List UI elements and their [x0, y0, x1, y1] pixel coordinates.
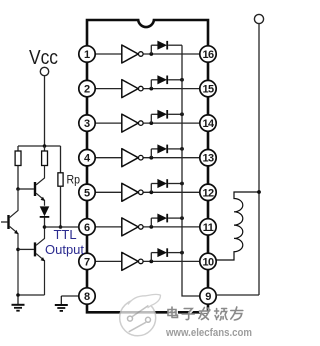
flyback diode row 3	[151, 113, 157, 115]
watermark logo	[120, 294, 161, 335]
flyback diode row 5	[151, 183, 157, 185]
svg-text:12: 12	[202, 187, 214, 199]
wire stub up row 7	[150, 253, 152, 262]
pin 10	[200, 253, 216, 269]
node Q1 base junction	[16, 187, 20, 191]
svg-text:Output: Output	[45, 242, 84, 257]
wire pin 9 to rail	[216, 294, 259, 296]
inverter buffer row 6	[122, 218, 138, 236]
node Vcc rail junction	[43, 144, 47, 148]
wire inverter output row 5	[143, 191, 200, 193]
svg-text:Rp: Rp	[67, 173, 81, 187]
diode D1	[40, 206, 50, 216]
wire inverter output row 4	[143, 157, 200, 159]
node diode-rail junction row 7	[180, 251, 184, 255]
wire inverter output row 3	[143, 122, 200, 124]
svg-text:16: 16	[202, 49, 214, 61]
wire inverter output row 2	[143, 88, 200, 90]
svg-text:3: 3	[84, 118, 90, 130]
transistor Q1	[18, 188, 34, 190]
wire input pin 4 to inverter	[95, 157, 122, 159]
pin 11	[200, 219, 216, 235]
pin 16	[200, 46, 216, 62]
svg-text:Vcc: Vcc	[29, 47, 58, 69]
pin 13	[200, 150, 216, 166]
pin 12	[200, 184, 216, 200]
ground left circuit	[12, 295, 25, 311]
node diode-rail junction row 3	[180, 112, 184, 116]
wire inverter output row 1	[143, 53, 200, 55]
pin 3	[79, 115, 95, 131]
inverter buffer row 7	[122, 252, 138, 270]
wire input pin 6 to inverter	[95, 226, 122, 228]
inverter buffer row 2	[122, 80, 138, 98]
node junction row 7	[149, 260, 153, 264]
pin 1	[79, 46, 95, 62]
wire input pin 1 to inverter	[95, 53, 122, 55]
svg-text:TTL: TTL	[53, 227, 76, 242]
pin 5	[79, 184, 95, 200]
inverter buffer row 1	[122, 45, 138, 63]
ground at pin 8	[55, 296, 68, 311]
svg-text:15: 15	[202, 84, 214, 96]
flyback diode row 4	[151, 148, 157, 150]
flyback diode row 2	[151, 79, 157, 81]
inverter buffer row 5	[122, 183, 138, 201]
node Rp bottom	[59, 225, 63, 229]
flyback diode row 6	[151, 217, 157, 219]
svg-text:6: 6	[84, 222, 90, 234]
wire emitter bottom rail	[18, 294, 45, 296]
IC body U1 (16-pin DIP outline with notch)	[87, 20, 208, 312]
flyback diode row 7	[151, 252, 157, 254]
wire input pin 7 to inverter	[95, 260, 122, 262]
node coil tap	[257, 190, 261, 194]
pin 2	[79, 80, 95, 96]
pin 4	[79, 150, 95, 166]
svg-text:2: 2	[84, 84, 90, 96]
svg-text:1: 1	[84, 49, 90, 61]
transistor Q3	[18, 248, 34, 250]
resistor R2 (collector)	[44, 146, 46, 151]
svg-text:8: 8	[84, 291, 90, 303]
wire input pin 3 to inverter	[95, 122, 122, 124]
node TTL output	[43, 225, 47, 229]
node junction row 6	[149, 225, 153, 229]
wire pin 8 to ground	[61, 295, 79, 297]
wire inverter output row 7	[143, 260, 200, 262]
svg-text:www.elecfans.com: www.elecfans.com	[165, 327, 252, 339]
wire Vcc rail	[18, 145, 61, 147]
wire stub up row 1	[150, 45, 152, 54]
svg-text:13: 13	[202, 153, 214, 165]
svg-text:4: 4	[84, 153, 91, 165]
pin 9	[200, 288, 216, 304]
svg-text:14: 14	[202, 118, 215, 130]
wire input pin 2 to inverter	[95, 88, 122, 90]
supply terminal top right	[254, 14, 263, 23]
node Q3 base junction	[16, 248, 20, 252]
resistor Rp (pull-up)	[60, 146, 62, 173]
svg-text:11: 11	[203, 222, 214, 234]
pin 6	[79, 219, 95, 235]
wire stub up row 5	[150, 184, 152, 193]
pin 15	[200, 80, 216, 96]
transistor Q2	[1, 221, 7, 223]
watermark text 电子发烧友	[169, 308, 244, 321]
Vcc terminal	[40, 67, 48, 75]
node junction row 2	[149, 87, 153, 91]
node junction row 5	[149, 190, 153, 194]
node diode-rail junction row 5	[180, 182, 184, 186]
inductor L1 (load coil)	[216, 192, 259, 260]
resistor R1 (left bias)	[17, 146, 19, 151]
wire common diode rail to pin 9	[182, 45, 200, 296]
node junction row 3	[149, 121, 153, 125]
svg-text:9: 9	[205, 291, 211, 303]
node diode-rail junction row 2	[180, 78, 184, 82]
node diode-rail junction row 6	[180, 216, 184, 220]
wire stub up row 4	[150, 149, 152, 158]
node diode-rail junction row 4	[180, 147, 184, 151]
pin 7	[79, 253, 95, 269]
wire Vcc down	[44, 76, 46, 146]
node junction row 4	[149, 156, 153, 160]
svg-text:7: 7	[84, 256, 90, 268]
flyback diode row 1	[151, 44, 157, 46]
svg-text:5: 5	[84, 187, 90, 199]
wire stub up row 2	[150, 80, 152, 89]
wire stub up row 6	[150, 218, 152, 227]
wire inverter output row 6	[143, 226, 200, 228]
wire input pin 5 to inverter	[95, 191, 122, 193]
node junction row 1	[149, 52, 153, 56]
wire right rail	[258, 24, 260, 295]
pin 8	[79, 288, 95, 304]
inverter buffer row 3	[122, 114, 138, 132]
svg-text:10: 10	[202, 256, 214, 268]
node ground junction	[16, 293, 20, 297]
inverter buffer row 4	[122, 149, 138, 167]
wire TTL output to pin 6	[45, 226, 79, 228]
wire stub up row 3	[150, 114, 152, 123]
pin 14	[200, 115, 216, 131]
